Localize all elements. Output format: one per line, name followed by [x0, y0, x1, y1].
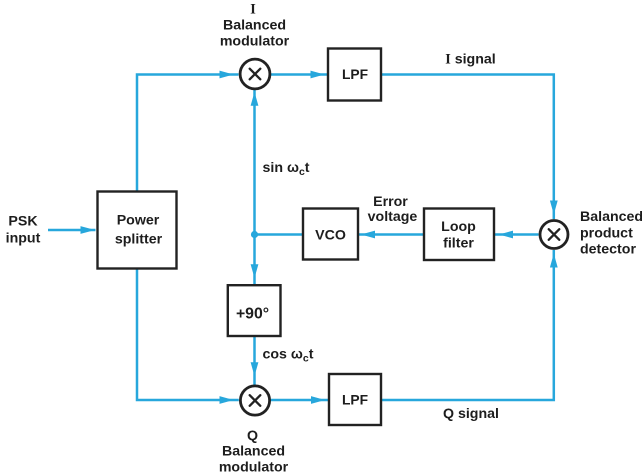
- label PSK input: [6, 214, 41, 247]
- wire Q signal: bottom LPF to balanced product detector: [381, 250, 554, 400]
- svg-text:Q signal: Q signal: [443, 406, 499, 422]
- svg-text:+90°: +90°: [236, 306, 269, 323]
- box +90 phase shifter: [228, 285, 281, 336]
- wire power splitter top to I balanced modulator: [137, 75, 239, 192]
- box LPF top: [328, 49, 381, 101]
- wire junction down to +90 box: [253, 235, 256, 286]
- box loop filter: [424, 209, 494, 261]
- label Q balanced modulator: [219, 428, 289, 476]
- svg-text:I: I: [250, 2, 256, 18]
- svg-text:Power: Power: [117, 213, 160, 229]
- label error voltage: [368, 194, 418, 225]
- svg-text:splitter: splitter: [115, 232, 163, 248]
- svg-text:LPF: LPF: [342, 393, 368, 408]
- label balanced product detector: [580, 209, 642, 258]
- svg-text:VCO: VCO: [315, 228, 346, 244]
- junction node: [251, 231, 258, 238]
- svg-text:modulator: modulator: [220, 34, 290, 50]
- box LPF bottom: [329, 374, 381, 425]
- wire PSK input to power splitter: [48, 229, 96, 232]
- svg-text:input: input: [6, 231, 41, 247]
- svg-text:voltage: voltage: [368, 209, 418, 225]
- svg-text:Error: Error: [373, 194, 408, 210]
- wire VCO to junction: [255, 233, 304, 236]
- svg-text:Loop: Loop: [441, 219, 476, 235]
- svg-text:I signal: I signal: [445, 52, 495, 68]
- wire junction up to I balanced modulator: [253, 90, 256, 235]
- box VCO: [303, 209, 358, 260]
- svg-text:Q: Q: [247, 428, 258, 444]
- svg-text:filter: filter: [443, 236, 474, 252]
- box power splitter: [98, 192, 177, 269]
- svg-text:PSK: PSK: [8, 214, 38, 230]
- mixer I balanced modulator: [240, 59, 270, 89]
- svg-text:modulator: modulator: [219, 460, 289, 476]
- svg-text:LPF: LPF: [342, 67, 368, 82]
- wire I signal: top LPF to balanced product detector: [381, 75, 554, 220]
- wire I balanced modulator to top LPF: [270, 73, 328, 76]
- mixer balanced product detector: [540, 221, 568, 249]
- wire power splitter bottom to Q balanced modulator: [137, 269, 239, 400]
- wire Q balanced modulator to bottom LPF: [270, 399, 329, 402]
- wire loop filter to VCO: [358, 233, 424, 236]
- svg-text:Balanced: Balanced: [580, 209, 642, 225]
- svg-text:detector: detector: [580, 242, 636, 258]
- wire balanced product detector to loop filter: [495, 233, 539, 236]
- svg-text:Balanced: Balanced: [223, 18, 286, 34]
- label I balanced modulator: [220, 2, 290, 50]
- mixer Q balanced modulator: [240, 386, 269, 415]
- svg-text:Balanced: Balanced: [222, 444, 285, 460]
- svg-text:product: product: [580, 226, 633, 242]
- wire +90 box to Q balanced modulator: [253, 336, 256, 386]
